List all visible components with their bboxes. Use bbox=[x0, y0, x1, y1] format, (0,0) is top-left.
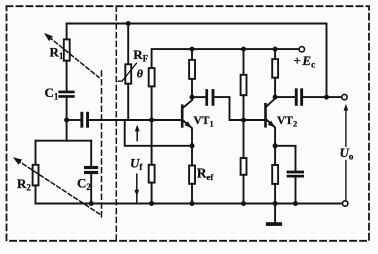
Uo arrow line bbox=[344, 104, 349, 201]
resistor R-lower bias VT1 bbox=[149, 120, 155, 204]
transistor VT1 bbox=[181, 97, 192, 146]
node feedback-output bbox=[324, 95, 329, 100]
node RC2 top bbox=[273, 47, 278, 52]
capacitor C2 bbox=[84, 141, 98, 204]
capacitor C1 bbox=[58, 91, 74, 141]
wire R2C2 box top bbox=[36, 140, 92, 142]
svg-text:θ: θ bbox=[137, 67, 144, 81]
node emitter VT2 bbox=[273, 143, 278, 148]
capacitor emitter bypass bbox=[275, 146, 304, 204]
transistor VT2 bbox=[264, 97, 275, 146]
resistor R2 bbox=[33, 141, 39, 204]
resistor R-upper bias VT1 bbox=[149, 68, 155, 120]
node collector VT2 bbox=[273, 95, 278, 100]
node R3 top bbox=[241, 47, 246, 52]
terminal +Ec bbox=[299, 47, 304, 52]
resistor R1 bbox=[64, 24, 70, 91]
wire base VT1 bbox=[89, 119, 181, 121]
node base VT1 divider bbox=[149, 118, 154, 123]
Uf sense stub bbox=[125, 120, 192, 146]
resistor R-lower bias VT2 bbox=[241, 120, 247, 204]
terminal output bottom bbox=[343, 201, 348, 206]
node emitter VT1 bbox=[190, 143, 195, 148]
node C1/C3 junction bbox=[64, 118, 69, 123]
arrow through R1 bbox=[44, 33, 99, 78]
Uf down arrow bbox=[134, 174, 139, 203]
thermistor RF bbox=[118, 21, 136, 120]
node base VT2 divider bbox=[241, 118, 246, 123]
capacitor interstage bbox=[192, 89, 264, 120]
dashed divider left-network right edge bbox=[101, 71, 103, 217]
wire feedback top line bbox=[67, 24, 327, 98]
resistor RC2 bbox=[272, 49, 278, 97]
Uf up arrow bbox=[135, 125, 140, 141]
ground bbox=[266, 204, 282, 226]
terminal output top bbox=[342, 94, 347, 99]
capacitor output bbox=[275, 88, 342, 106]
wire ground rail bbox=[36, 203, 343, 205]
resistor RC1 bbox=[189, 49, 195, 97]
wire +Ec rail bbox=[152, 49, 300, 68]
node RC1 top bbox=[190, 47, 195, 52]
arrow through R2 bbox=[13, 157, 100, 214]
coupling capacitor to amplifier bbox=[67, 112, 89, 128]
dashed divider amplifier left edge bbox=[115, 6, 117, 241]
node C2-rail bbox=[89, 201, 94, 206]
resistor Ref bbox=[189, 146, 195, 204]
resistor R-upper bias VT2 bbox=[241, 49, 247, 120]
node collector VT1 bbox=[190, 95, 195, 100]
resistor Re2 bbox=[272, 146, 278, 204]
